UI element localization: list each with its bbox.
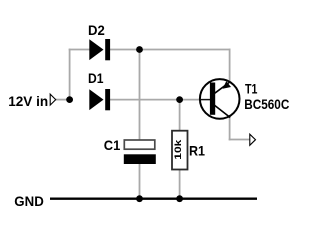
input terminal arrow (12V in) — [50, 94, 56, 105]
transistor T1 base bar — [210, 83, 215, 115]
svg-text:R1: R1 — [189, 143, 205, 159]
svg-text:T1: T1 — [245, 80, 258, 96]
junction dot base / R1 node — [176, 96, 183, 103]
capacitor C1 top plate — [124, 140, 155, 149]
junction dot C1 to GND — [136, 195, 143, 202]
wire emitter vertical drop — [229, 49, 231, 82]
capacitor C1 bottom plate — [124, 154, 156, 164]
wire R1 bottom lead — [179, 169, 181, 199]
transistor T1 circle — [200, 79, 240, 119]
wire left vertical riser — [69, 49, 71, 100]
transistor T1 collector line — [215, 105, 231, 117]
GND rail — [50, 197, 257, 199]
output terminal arrow — [250, 134, 256, 145]
wire D1 branch — [110, 99, 201, 101]
junction dot input node — [66, 96, 73, 103]
wire collector vertical drop — [229, 117, 231, 140]
wire C1 bottom lead — [139, 163, 141, 199]
wire C1 vertical (crosses D1 branch, no junction) — [139, 50, 141, 141]
transistor T1 base lead — [201, 99, 211, 101]
junction dot R1 to GND — [176, 195, 183, 202]
transistor T1 emitter line — [215, 82, 231, 94]
svg-text:10k: 10k — [173, 138, 183, 159]
diode D1 — [89, 89, 110, 110]
svg-text:D1: D1 — [88, 70, 104, 86]
resistor R1 body — [172, 131, 188, 170]
transistor T1 emitter arrow (PNP, points toward base) — [223, 81, 231, 89]
svg-text:C1: C1 — [104, 137, 121, 153]
svg-text:D2: D2 — [88, 22, 105, 38]
junction dot top rail / C1 node — [136, 46, 143, 53]
wire R1 top lead — [179, 100, 181, 131]
svg-text:12V in: 12V in — [8, 93, 48, 109]
svg-text:BC560C: BC560C — [244, 96, 289, 112]
wire output horizontal — [229, 139, 250, 141]
svg-text:GND: GND — [14, 193, 44, 209]
wire top rail left segment — [69, 49, 90, 51]
diode D2 — [89, 39, 110, 60]
wire input segment — [56, 99, 71, 101]
wire top rail right segment — [110, 49, 231, 51]
